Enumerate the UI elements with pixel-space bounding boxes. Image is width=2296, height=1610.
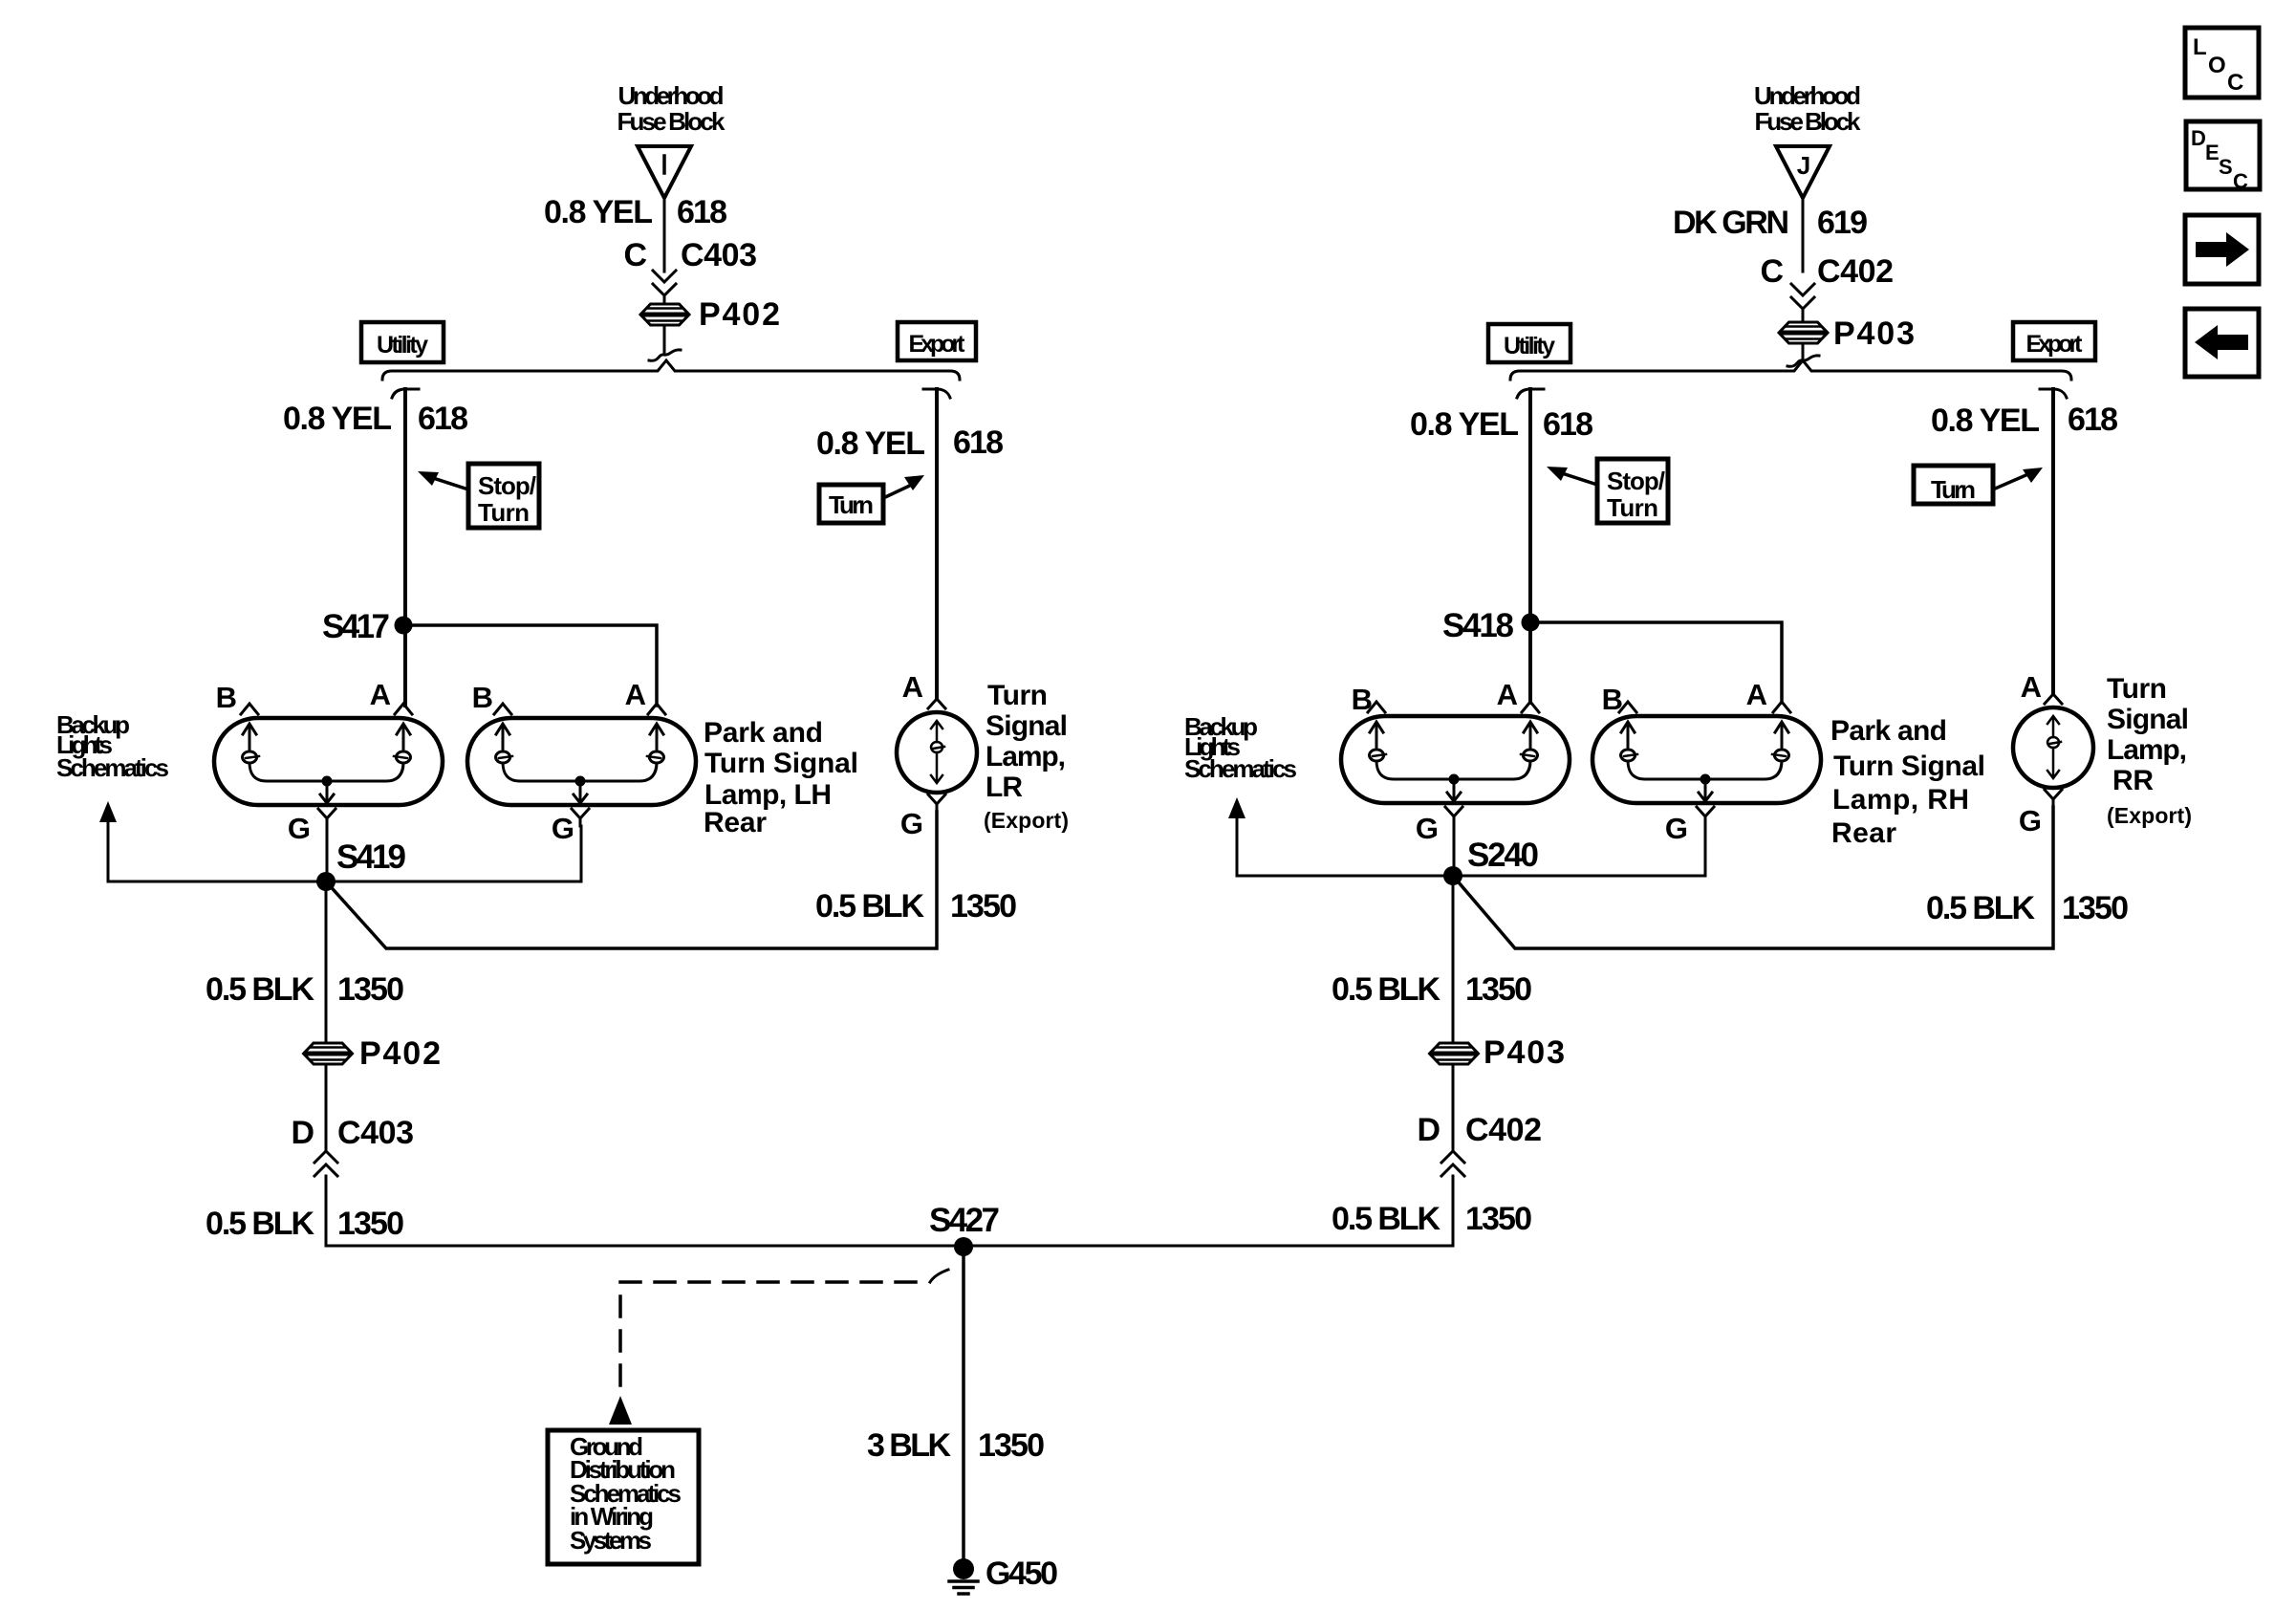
svg-text:Fuse Block: Fuse Block <box>1755 107 1862 136</box>
svg-text:0.5 BLK: 0.5 BLK <box>206 1206 314 1242</box>
svg-text:Systems: Systems <box>570 1526 652 1555</box>
wire S419 diagonal to LR lamp ground <box>326 812 937 948</box>
svg-text:Turn: Turn <box>1607 493 1658 522</box>
svg-text:Underhood: Underhood <box>1754 81 1861 110</box>
arrow from Stop/Turn box to wire <box>430 477 468 490</box>
svg-text:A: A <box>1497 678 1518 711</box>
out-of-page double chevron up <box>314 1151 337 1176</box>
svg-text:Park and: Park and <box>1830 715 1947 747</box>
Export box (left) <box>898 322 976 360</box>
dashed reference from S427 to ground distribution box <box>930 1270 948 1282</box>
svg-text:0.5 BLK: 0.5 BLK <box>1926 890 2035 926</box>
wire lamp1 G to S419 <box>326 826 329 881</box>
svg-text:0.8 YEL: 0.8 YEL <box>544 194 653 230</box>
A terminal chevron LR <box>928 699 945 708</box>
svg-text:1350: 1350 <box>1465 1201 1532 1237</box>
svg-text:1350: 1350 <box>1465 971 1532 1008</box>
wire stub with twist below P403 <box>1802 343 1805 358</box>
wire stub with twist below P402 <box>663 325 666 352</box>
svg-text:Turn: Turn <box>478 498 530 527</box>
svg-text:C: C <box>1760 253 1784 290</box>
wire S240 down <box>1452 876 1455 1043</box>
svg-text:RR: RR <box>2112 765 2154 796</box>
ground distribution schematics box <box>548 1430 699 1564</box>
svg-text:0.5 BLK: 0.5 BLK <box>206 971 314 1008</box>
svg-text:Rear: Rear <box>704 807 767 838</box>
arrow from Stop/Turn box to wire (right) <box>1559 472 1597 485</box>
svg-text:619: 619 <box>1817 205 1868 241</box>
svg-text:B: B <box>472 681 493 714</box>
svg-text:E: E <box>2205 141 2220 164</box>
svg-text:S240: S240 <box>1467 837 1539 874</box>
svg-text:1350: 1350 <box>337 1206 404 1242</box>
svg-text:P402: P402 <box>359 1035 441 1072</box>
svg-text:C403: C403 <box>681 237 757 273</box>
svg-text:C402: C402 <box>1817 253 1894 290</box>
out-of-page double chevron up (right) <box>1441 1151 1464 1176</box>
Stop/Turn destination box (left) <box>468 464 539 528</box>
LOC nav box <box>2185 28 2259 98</box>
export branch wire down to LR lamp <box>935 389 939 697</box>
G terminal Y RR <box>2045 790 2062 807</box>
svg-text:Lamp,: Lamp, <box>2107 734 2187 766</box>
svg-text:618: 618 <box>418 401 468 437</box>
inline connector P403 (upper) <box>1779 322 1828 343</box>
svg-text:Turn: Turn <box>1931 475 1976 504</box>
svg-text:O: O <box>2208 53 2226 78</box>
Utility box (left) <box>361 322 444 362</box>
svg-text:S419: S419 <box>336 838 406 876</box>
arrow from Turn box to wire (right) <box>1993 473 2030 490</box>
svg-text:618: 618 <box>677 194 727 230</box>
wire lamp3 G to S240 <box>1453 826 1456 876</box>
utility branch wire down to S418 <box>1528 389 1532 622</box>
svg-text:B: B <box>1352 683 1373 716</box>
next arrow nav box <box>2185 215 2259 284</box>
svg-text:A: A <box>902 670 923 704</box>
svg-text:Stop/: Stop/ <box>478 471 536 500</box>
export branch wire down to RR lamp <box>2051 389 2055 692</box>
svg-text:Turn: Turn <box>829 490 874 519</box>
wire S419 down <box>325 881 328 1043</box>
svg-text:Utility: Utility <box>1504 333 1555 359</box>
svg-text:0.8 YEL: 0.8 YEL <box>816 425 925 462</box>
svg-text:(Export): (Export) <box>984 808 1069 833</box>
svg-text:C: C <box>623 237 647 273</box>
svg-text:L: L <box>2193 34 2207 60</box>
svg-text:0.8 YEL: 0.8 YEL <box>283 401 392 437</box>
svg-text:G: G <box>2019 804 2042 838</box>
brace splitting Utility / Export (right) <box>1510 360 2071 380</box>
svg-text:Export: Export <box>909 331 966 358</box>
svg-text:S418: S418 <box>1442 607 1514 644</box>
svg-text:S427: S427 <box>929 1202 1000 1239</box>
svg-text:1350: 1350 <box>978 1427 1045 1464</box>
wire S419 to backup lights arrow <box>108 881 326 883</box>
svg-text:G: G <box>288 812 311 845</box>
wire S417 branch to lamp 2 A <box>403 625 657 706</box>
svg-text:0.8 YEL: 0.8 YEL <box>1931 402 2040 439</box>
inline connector P402 (upper) <box>640 304 689 325</box>
svg-text:C: C <box>2227 70 2243 96</box>
svg-text:618: 618 <box>1543 406 1593 443</box>
Stop/Turn destination box (right) <box>1597 459 1668 523</box>
svg-text:B: B <box>216 681 237 714</box>
lamp E1 park and turn signal lamp LH rear (bulb 2) <box>467 704 696 826</box>
fuse block feed triangle J <box>1776 146 1830 198</box>
svg-text:P402: P402 <box>699 296 780 333</box>
wire S418 down to lamp 3 A <box>1528 622 1532 703</box>
svg-text:C: C <box>2233 169 2248 193</box>
wire down to S427 run <box>326 1176 964 1246</box>
arrow from Turn box to wire <box>883 483 916 498</box>
svg-text:0.5 BLK: 0.5 BLK <box>1332 1201 1440 1237</box>
svg-text:Schematics: Schematics <box>1184 754 1297 783</box>
svg-text:A: A <box>1746 678 1767 711</box>
svg-text:3 BLK: 3 BLK <box>867 1427 951 1464</box>
svg-text:J: J <box>1797 151 1810 180</box>
Utility box (right) <box>1488 324 1570 362</box>
svg-text:G: G <box>1416 812 1439 845</box>
wire from fuse block J <box>1802 198 1805 272</box>
svg-text:S: S <box>2219 155 2233 179</box>
svg-text:G: G <box>552 812 574 845</box>
wire S240 to backup lights arrow (right) <box>1237 875 1453 878</box>
Export box (right) <box>2013 322 2095 360</box>
svg-text:A: A <box>2021 670 2042 704</box>
wire <box>1802 309 1805 322</box>
svg-text:(Export): (Export) <box>2107 803 2192 828</box>
svg-text:Schematics: Schematics <box>56 753 169 782</box>
svg-text:618: 618 <box>2068 402 2118 438</box>
utility branch wire down to S417 <box>403 389 407 625</box>
wire lamp4 G down <box>1704 826 1707 876</box>
hook at top of utility branch wire <box>392 389 419 398</box>
svg-text:B: B <box>1602 683 1623 716</box>
wire lamp4 G to S240 <box>1453 875 1705 878</box>
svg-text:G: G <box>900 807 923 840</box>
inline connector P402 (lower) <box>304 1043 353 1064</box>
svg-text:0.8 YEL: 0.8 YEL <box>1410 406 1519 443</box>
svg-text:A: A <box>625 678 646 711</box>
out-of-page double chevron down <box>653 271 676 295</box>
svg-text:P403: P403 <box>1484 1034 1565 1071</box>
out-of-page double chevron down <box>1791 284 1814 309</box>
svg-text:Lamp, RH: Lamp, RH <box>1832 784 1969 816</box>
wire <box>663 295 666 305</box>
svg-text:Turn Signal: Turn Signal <box>1833 751 1985 782</box>
svg-text:Stop/: Stop/ <box>1607 467 1665 495</box>
svg-text:DK GRN: DK GRN <box>1673 205 1789 241</box>
A terminal chevron RR <box>2045 694 2062 704</box>
svg-text:Rear: Rear <box>1831 817 1896 849</box>
wire S418 branch to lamp 4 A <box>1530 622 1782 703</box>
svg-text:Export: Export <box>2026 331 2084 358</box>
svg-text:Lamp,: Lamp, <box>986 741 1066 772</box>
svg-text:LR: LR <box>986 772 1023 803</box>
svg-text:Underhood: Underhood <box>618 81 725 110</box>
svg-text:D: D <box>1417 1112 1440 1148</box>
svg-text:Fuse Block: Fuse Block <box>617 107 726 136</box>
svg-text:0.5 BLK: 0.5 BLK <box>815 888 924 925</box>
lamp E1 park and turn signal lamp LH rear (bulb 1) <box>214 704 443 826</box>
svg-text:Utility: Utility <box>377 332 428 359</box>
lamp E4 park and turn signal lamp RH rear (bulb 1) <box>1341 702 1570 824</box>
svg-text:1350: 1350 <box>337 971 404 1008</box>
svg-text:P403: P403 <box>1833 315 1915 352</box>
svg-text:Park and: Park and <box>704 717 823 749</box>
svg-text:C403: C403 <box>337 1115 414 1151</box>
Turn destination box (left) <box>819 485 883 523</box>
svg-text:1350: 1350 <box>2062 890 2129 926</box>
svg-text:Turn: Turn <box>987 680 1048 711</box>
hook at top of export branch wire (right) <box>2040 389 2067 398</box>
Turn destination box (right) <box>1914 466 1993 504</box>
ground G450 <box>949 1558 978 1594</box>
svg-text:1350: 1350 <box>950 888 1017 925</box>
inline connector P403 (lower) <box>1430 1043 1479 1064</box>
svg-text:D: D <box>291 1115 314 1151</box>
wire lamp2 G down <box>580 826 583 881</box>
wire from fuse block I <box>663 198 666 272</box>
wire down to S427 run (right) <box>964 1176 1453 1246</box>
svg-text:C402: C402 <box>1465 1112 1542 1148</box>
DESC nav box <box>2186 121 2260 189</box>
fuse block feed triangle I <box>638 146 691 198</box>
svg-text:618: 618 <box>953 424 1004 461</box>
svg-text:D: D <box>2191 126 2206 150</box>
wire below P403 <box>1452 1064 1455 1149</box>
hook at top of utility branch wire (right) <box>1517 389 1544 398</box>
wire S427 to G450 <box>962 1247 965 1558</box>
svg-text:G: G <box>1665 812 1688 845</box>
brace splitting Utility / Export (left) <box>382 360 960 380</box>
svg-text:Turn Signal: Turn Signal <box>704 748 858 779</box>
previous arrow nav box <box>2185 309 2259 377</box>
wire below P402 <box>325 1064 328 1149</box>
svg-text:Turn: Turn <box>2107 673 2167 705</box>
svg-text:S417: S417 <box>322 608 390 645</box>
svg-text:Signal: Signal <box>2107 704 2189 735</box>
turn signal lamp RR (export) <box>2013 707 2093 788</box>
hook at top of export branch wire <box>923 389 950 398</box>
svg-text:G450: G450 <box>986 1556 1058 1592</box>
turn signal lamp LR (export) <box>897 712 977 793</box>
wire S417 down to lamp 1 A <box>403 625 407 706</box>
wire S240 diagonal to RR lamp ground <box>1453 807 2053 948</box>
svg-text:A: A <box>370 678 391 711</box>
wire lamp2 G to S419 <box>326 881 581 883</box>
svg-text:Signal: Signal <box>986 710 1068 742</box>
lamp E4 park and turn signal lamp RH rear (bulb 2) <box>1592 702 1821 824</box>
G terminal Y LR <box>928 794 945 812</box>
svg-text:0.5 BLK: 0.5 BLK <box>1332 971 1440 1008</box>
